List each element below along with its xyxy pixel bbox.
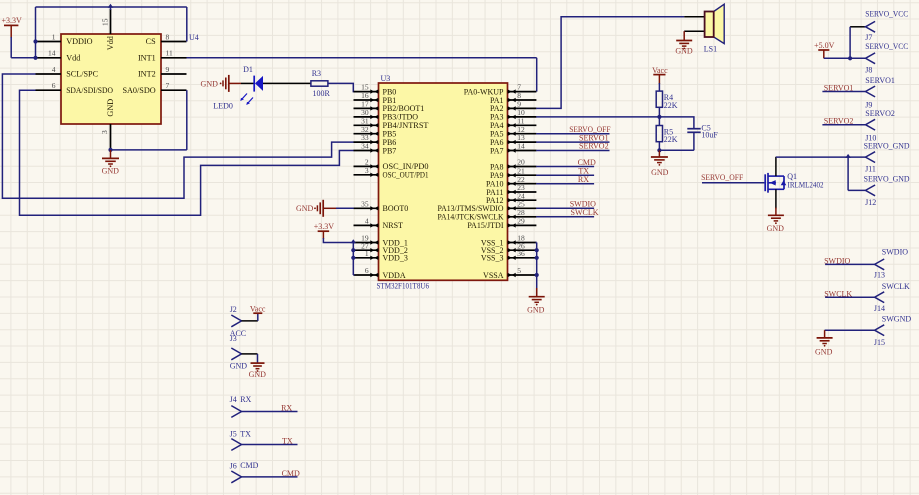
svg-text:SERVO_GND: SERVO_GND xyxy=(864,175,910,184)
wire SWDIO to J13 xyxy=(825,263,875,265)
wire R5 bottom to GND node xyxy=(658,142,660,151)
resistor R5 xyxy=(656,126,662,142)
svg-text:Vacc: Vacc xyxy=(652,66,668,75)
svg-text:8: 8 xyxy=(166,32,170,41)
svg-text:D1: D1 xyxy=(243,65,253,74)
svg-text:J15: J15 xyxy=(874,338,885,347)
svg-text:GND: GND xyxy=(675,47,693,56)
U3 pin 33 PB6 xyxy=(354,141,379,143)
svg-text:SA0/SDO: SA0/SDO xyxy=(122,86,155,95)
U3 pin 16 PB1 xyxy=(354,99,379,101)
junction at VDDIO pin1 xyxy=(33,39,37,43)
wire Q1 drain to J11/J12 xyxy=(776,156,848,158)
svg-text:SWGND: SWGND xyxy=(882,315,912,324)
connector J11 xyxy=(866,152,876,163)
svg-text:RX: RX xyxy=(578,175,589,184)
U3 pin 14 PA7 xyxy=(508,150,537,152)
svg-text:J14: J14 xyxy=(874,304,885,313)
svg-text:11: 11 xyxy=(166,49,173,58)
U3 pin 31 PB4/JNTRST xyxy=(354,124,379,126)
connector J8 xyxy=(866,53,876,64)
svg-text:Vdd: Vdd xyxy=(66,54,80,63)
wire C5 bottom to GND node xyxy=(659,149,694,151)
wire top Vdd run xyxy=(36,6,187,8)
svg-text:SERVO_VCC: SERVO_VCC xyxy=(865,42,908,51)
junction VDD_3 xyxy=(351,256,355,260)
wire GND to BOOT0 xyxy=(336,207,354,209)
svg-text:PB7: PB7 xyxy=(383,146,397,155)
svg-text:5: 5 xyxy=(517,266,521,275)
wire VSS_3 stub xyxy=(536,257,537,259)
wire J6 CMD xyxy=(242,476,298,478)
wire J7-J8 riser xyxy=(849,27,851,59)
wire GND to J15 xyxy=(825,329,875,331)
svg-text:SCL/SPC: SCL/SPC xyxy=(66,70,98,79)
svg-text:J7: J7 xyxy=(865,33,872,42)
connector J10 xyxy=(866,119,876,130)
U3 pin 36 VSS_3 xyxy=(508,257,537,259)
junction at Vdd pin14 xyxy=(33,56,37,60)
wire R5 top xyxy=(658,117,660,126)
wire Q1 source down xyxy=(775,189,777,208)
connector J15 xyxy=(875,325,885,336)
svg-text:14: 14 xyxy=(48,49,56,58)
wire vertical Vdd riser xyxy=(35,7,37,58)
connector J14 xyxy=(875,292,885,303)
ground GND (divider) xyxy=(658,150,660,157)
svg-text:GND: GND xyxy=(767,224,785,233)
U4 pin 15 Vdd top xyxy=(110,9,112,34)
connector J7 xyxy=(850,26,865,28)
wire SWCLK to J14 xyxy=(825,296,875,298)
wire VSSA stub xyxy=(536,274,537,276)
svg-text:VSS_3: VSS_3 xyxy=(481,254,504,263)
svg-text:J3: J3 xyxy=(230,334,237,343)
wire VDD riser xyxy=(352,243,354,276)
svg-text:10uF: 10uF xyxy=(701,131,718,140)
svg-text:SERVO_OFF: SERVO_OFF xyxy=(701,173,744,182)
wire PA13 SWDIO xyxy=(536,207,594,209)
svg-text:PA8: PA8 xyxy=(490,162,504,171)
ground GND (U3 VSS) xyxy=(536,288,538,297)
U4 pin 4 SCL/SPC xyxy=(36,73,62,75)
U3 pin 19 VDD_1 xyxy=(354,242,379,244)
svg-text:J5: J5 xyxy=(230,430,237,439)
U4 pin 14 Vdd xyxy=(36,57,62,59)
wire SCL/SPC to PB6 xyxy=(2,74,353,198)
svg-text:9: 9 xyxy=(166,65,170,74)
wire INT1 to PA0 xyxy=(187,57,537,59)
wire J4 RX xyxy=(242,411,298,413)
U3 pin 11 PA4 xyxy=(508,124,537,126)
svg-text:Vacc: Vacc xyxy=(250,305,266,314)
U3 pin 18 VSS_1 xyxy=(508,242,537,244)
wire J12 stub xyxy=(848,189,865,191)
U3 pin 27 VDD_2 xyxy=(354,249,379,251)
U3 pin 8 PA1 xyxy=(508,99,537,101)
wire SERVO2 to J10 xyxy=(822,124,865,126)
U3 pin 35 BOOT0 xyxy=(354,207,379,209)
svg-text:GND: GND xyxy=(102,166,120,175)
U3 pin 6 VDDA xyxy=(354,274,379,276)
junction at U4 pin15 riser xyxy=(108,4,114,8)
LED D1 xyxy=(241,82,254,84)
U3 pin 29 PA15/JTDI xyxy=(508,224,537,226)
U4 pin 11 INT1 xyxy=(161,57,187,59)
svg-text:20: 20 xyxy=(517,158,525,167)
svg-text:SDA/SDI/SDO: SDA/SDI/SDO xyxy=(66,86,113,95)
svg-text:4: 4 xyxy=(365,217,369,226)
wire PA3 to R4/R5 divider xyxy=(536,116,659,118)
junction J8 xyxy=(848,56,852,60)
U4 pin 3 GND bottom xyxy=(110,124,112,150)
svg-text:7: 7 xyxy=(166,81,170,90)
LED emission arrows xyxy=(242,94,248,100)
wire SERVO_OFF to Q1 gate xyxy=(702,182,764,184)
wire +3.3V down to Vdd net xyxy=(10,37,12,58)
svg-text:100R: 100R xyxy=(313,89,331,98)
svg-text:6: 6 xyxy=(365,266,369,275)
U3 pin 9 PA2 xyxy=(508,107,537,109)
svg-text:GND: GND xyxy=(815,347,833,356)
U3 pin 30 PB3/JTDO xyxy=(354,116,379,118)
svg-text:1: 1 xyxy=(52,32,56,41)
wire Vacc to R4 xyxy=(658,83,660,91)
svg-text:J2: J2 xyxy=(230,305,237,314)
U3 pin 10 PA3 xyxy=(508,116,537,118)
svg-text:RX: RX xyxy=(240,395,251,404)
U3 pin 2 OSC_IN/PD0 xyxy=(354,165,379,167)
ground GND (U4) xyxy=(110,150,112,158)
junction GND node xyxy=(657,148,661,152)
svg-text:1: 1 xyxy=(365,249,369,258)
wire SERVO1 to J9 xyxy=(822,91,865,93)
U3 pin 3 OSC_OUT/PD1 xyxy=(354,174,379,176)
svg-text:SERVO2: SERVO2 xyxy=(865,109,895,118)
U4 pin 6 SDA/SDI/SDO xyxy=(36,89,62,91)
wire node to C5 branch xyxy=(659,117,694,129)
svg-text:+5.0V: +5.0V xyxy=(814,41,835,50)
svg-text:J12: J12 xyxy=(865,198,876,207)
junction SA0 wire joins GND stem xyxy=(108,148,112,152)
wire Q1 drain up xyxy=(775,157,777,176)
svg-text:INT1: INT1 xyxy=(138,54,156,63)
svg-text:VDDIO: VDDIO xyxy=(66,37,92,46)
wire +3.3V to U4 pin14 xyxy=(11,57,35,59)
svg-text:PA7: PA7 xyxy=(490,146,504,155)
wire PA2 to speaker LS1 xyxy=(536,17,684,109)
U3 pin 4 NRST xyxy=(354,224,379,226)
svg-text:IRLML2402: IRLML2402 xyxy=(788,180,824,189)
wire PA9 TX xyxy=(536,174,594,176)
svg-text:CMD: CMD xyxy=(240,461,258,470)
svg-text:GND: GND xyxy=(230,361,248,370)
ground GND (J3) xyxy=(257,354,259,363)
wire PA0 riser xyxy=(536,58,538,92)
connector J9 xyxy=(866,86,876,97)
connector J13 xyxy=(875,259,885,270)
svg-text:36: 36 xyxy=(517,249,525,258)
svg-text:Vdd: Vdd xyxy=(106,36,115,50)
U3 pin 22 PA10 xyxy=(508,183,537,185)
svg-text:VDD_3: VDD_3 xyxy=(383,254,408,263)
U4 pin 8 CS xyxy=(161,41,187,43)
wire PA14 SWCLK xyxy=(536,216,594,218)
wire PA7 SERVO2 xyxy=(536,150,609,152)
svg-text:J6: J6 xyxy=(230,461,237,470)
svg-text:SWCLK: SWCLK xyxy=(571,208,599,217)
wire VSS riser to ground xyxy=(536,243,538,297)
wire U4 pin3 to GND xyxy=(111,149,187,151)
svg-text:3: 3 xyxy=(100,130,109,134)
U3 pin 32 PB5 xyxy=(354,133,379,135)
wire SA0/SDO drop xyxy=(186,90,188,150)
svg-text:22K: 22K xyxy=(664,101,678,110)
svg-text:+3.3V: +3.3V xyxy=(2,16,23,25)
wire R3 to PB0 xyxy=(328,83,355,91)
svg-text:TX: TX xyxy=(240,430,251,439)
U3 pin 12 PA5 xyxy=(508,133,537,135)
svg-text:GND: GND xyxy=(106,99,115,117)
wire LS1 to GND xyxy=(683,31,685,40)
wire SDA/SDI/SDO to PB7 xyxy=(20,90,354,215)
wire PA10 RX xyxy=(536,183,594,185)
resistor R4 xyxy=(656,91,662,107)
svg-text:GND: GND xyxy=(651,168,669,177)
svg-text:U4: U4 xyxy=(189,33,199,42)
U3 pin 23 PA11 xyxy=(508,191,537,193)
svg-text:J11: J11 xyxy=(865,164,876,173)
svg-text:+3.3V: +3.3V xyxy=(314,222,335,231)
ground GND (LS1) xyxy=(676,40,692,42)
U4 pin 7 SA0/SDO xyxy=(161,89,187,91)
svg-text:SERVO_VCC: SERVO_VCC xyxy=(865,9,908,18)
svg-text:NRST: NRST xyxy=(383,221,404,230)
svg-text:R3: R3 xyxy=(312,69,321,78)
svg-text:CS: CS xyxy=(146,37,156,46)
svg-text:SWDIO: SWDIO xyxy=(882,248,908,257)
connector J12 xyxy=(866,185,876,196)
speaker LS1 xyxy=(684,16,704,18)
wire VDD_1 stub xyxy=(353,242,354,244)
U3 pin 26 VSS_2 xyxy=(508,249,537,251)
svg-text:J8: J8 xyxy=(865,65,872,74)
junction VDD_1 xyxy=(351,239,357,243)
svg-text:6: 6 xyxy=(52,81,56,90)
junction VSS_2 xyxy=(535,248,539,252)
wire R4 to node xyxy=(658,107,660,117)
transistor Q1 IRLML2402 xyxy=(764,174,766,191)
svg-text:BOOT0: BOOT0 xyxy=(383,204,409,213)
wire VSS_1 stub xyxy=(536,242,537,244)
svg-text:GND: GND xyxy=(249,370,267,379)
svg-text:4: 4 xyxy=(52,65,56,74)
svg-text:GND: GND xyxy=(527,305,545,314)
U3 pin 13 PA6 xyxy=(508,141,537,143)
U3 pin 24 PA12 xyxy=(508,199,537,201)
svg-text:J13: J13 xyxy=(874,271,885,280)
wire J5 TX xyxy=(242,444,298,446)
junction VSS_3 xyxy=(535,256,539,260)
wire VDD_2 stub xyxy=(353,249,354,251)
wire D1 to R3 xyxy=(263,82,311,84)
IC U4 body xyxy=(61,34,161,124)
svg-text:INT2: INT2 xyxy=(138,70,156,79)
junction VDD_2 xyxy=(351,248,355,252)
ground GND (J15) xyxy=(824,330,826,338)
svg-text:LED0: LED0 xyxy=(213,102,233,111)
wire J11-J12 riser xyxy=(847,157,849,190)
U3 pin 15 PB0 xyxy=(354,91,379,93)
wire PA6 SERVO1 xyxy=(536,141,609,143)
svg-text:22K: 22K xyxy=(664,135,678,144)
svg-text:J4: J4 xyxy=(230,395,237,404)
svg-text:SERVO1: SERVO1 xyxy=(865,76,895,85)
U3 pin 7 PA0-WKUP xyxy=(508,91,537,93)
wire J11 stub xyxy=(848,156,865,158)
svg-text:15: 15 xyxy=(101,18,110,26)
resistor R3 xyxy=(311,81,328,86)
IC U3 body xyxy=(379,83,508,280)
U3 pin 34 PB7 xyxy=(354,150,379,152)
junction J11 xyxy=(845,154,851,158)
svg-text:3: 3 xyxy=(365,166,369,175)
wire VDDA stub xyxy=(353,274,354,276)
svg-text:STM32F101T8U6: STM32F101T8U6 xyxy=(377,282,430,291)
svg-text:SWCLK: SWCLK xyxy=(882,282,910,291)
svg-text:GND: GND xyxy=(296,204,314,213)
U3 pin 21 PA9 xyxy=(508,174,537,176)
U3 pin 25 PA13/JTMS/SWDIO xyxy=(508,207,537,209)
wire +5.0V to J8 xyxy=(824,57,866,59)
junction VSSA xyxy=(535,273,539,277)
wire PA8 CMD xyxy=(536,166,594,168)
capacitor C5 xyxy=(687,128,700,130)
svg-text:PA15/JTDI: PA15/JTDI xyxy=(467,221,503,230)
svg-text:35: 35 xyxy=(361,199,369,208)
U3 pin 1 VDD_3 xyxy=(354,257,379,259)
svg-text:VSSA: VSSA xyxy=(483,271,504,280)
svg-text:GND: GND xyxy=(201,80,219,89)
svg-text:LS1: LS1 xyxy=(704,45,717,54)
U3 pin 28 PA14/JTCK/SWCLK xyxy=(508,216,537,218)
ground GND (Q1) xyxy=(768,214,784,216)
U3 pin 5 VSSA xyxy=(508,274,537,276)
wire VDD_3 stub xyxy=(353,257,354,259)
wire VSS_2 stub xyxy=(536,249,537,251)
svg-text:OSC_OUT/PD1: OSC_OUT/PD1 xyxy=(383,171,429,180)
wire CS drop to U4 pin8 xyxy=(186,7,188,42)
svg-text:14: 14 xyxy=(517,142,525,151)
wire PA5 SERVO_OFF xyxy=(536,133,609,135)
svg-text:VDDA: VDDA xyxy=(383,271,406,280)
U4 pin 1 VDDIO xyxy=(36,41,62,43)
U4 pin 9 INT2 xyxy=(161,73,187,75)
svg-text:34: 34 xyxy=(361,142,369,151)
U3 pin 20 PA8 xyxy=(508,166,537,168)
svg-text:SERVO2: SERVO2 xyxy=(579,142,609,151)
wire +3.3V to VDD_1 xyxy=(323,238,353,243)
svg-text:SERVO_GND: SERVO_GND xyxy=(864,141,910,150)
svg-text:29: 29 xyxy=(517,217,525,226)
U3 pin 17 PB2/BOOT1 xyxy=(354,107,379,109)
svg-text:U3: U3 xyxy=(381,74,391,83)
junction divider node xyxy=(657,115,661,119)
